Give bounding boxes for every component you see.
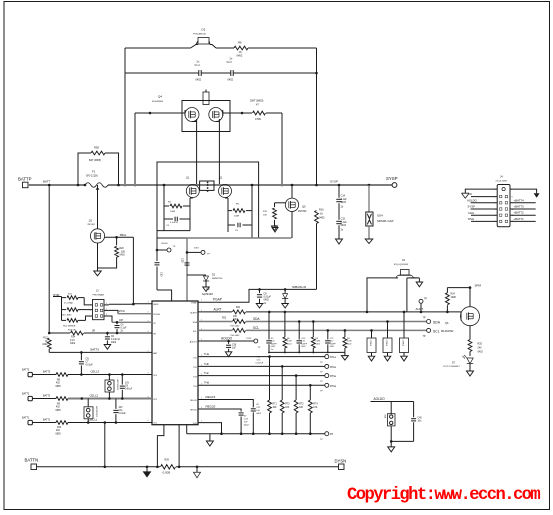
svg-text:PBAL: PBAL — [120, 233, 127, 237]
svg-text:RT4: RT4 — [313, 404, 318, 406]
svg-text:D1: D1 — [202, 28, 206, 32]
capacitor C11 cellC-D — [115, 399, 117, 409]
svg-text:RT1a: RT1a — [330, 356, 336, 359]
wire SDA row — [198, 321, 232, 323]
svg-text:SYSP: SYSP — [330, 179, 338, 183]
svg-text:SPM: SPM — [475, 283, 482, 287]
svg-text:SDA: SDA — [253, 317, 260, 321]
svg-text:REG25: REG25 — [206, 405, 216, 409]
svg-text:TP: TP — [423, 317, 426, 319]
wire J4 DSG — [471, 220, 497, 222]
svg-text:0.1uF 2n: 0.1uF 2n — [170, 222, 178, 224]
transistor Q6 — [469, 288, 471, 307]
wire J4 SYSP — [471, 208, 498, 210]
svg-text:SG4: SG4 — [377, 214, 383, 218]
transistor Q4 dual FET pack — [182, 101, 230, 132]
svg-text:SDA: SDA — [193, 321, 198, 324]
LED D7 — [467, 358, 473, 364]
svg-text:0805: 0805 — [56, 433, 62, 435]
svg-text:1: 1 — [90, 305, 91, 307]
svg-text:100R: 100R — [170, 211, 176, 213]
svg-text:CZRU5: CZRU5 — [369, 340, 371, 348]
transistor Q3 — [97, 185, 99, 229]
svg-text:1K: 1K — [320, 213, 323, 216]
svg-text:CELL3: CELL3 — [91, 370, 100, 374]
wire top bridge line2 with C1 C2 — [125, 72, 199, 74]
svg-text:0402: 0402 — [341, 224, 347, 227]
wire vertical right bridge riser x=316.5 — [316, 48, 318, 185]
svg-text:100R: 100R — [234, 216, 240, 218]
svg-text:F1: F1 — [92, 170, 96, 174]
svg-text:JC LEAD: JC LEAD — [64, 301, 73, 304]
wire CELL3 row — [32, 374, 56, 376]
svg-text:TP: TP — [423, 336, 426, 338]
svg-text:BATTP: BATTP — [18, 177, 32, 182]
resistor R6 — [234, 46, 248, 50]
svg-text:SCL: SCL — [253, 326, 259, 330]
svg-text:CP: CP — [119, 318, 123, 322]
svg-text:C2 2: C2 2 — [227, 61, 233, 64]
svg-text:1uF: 1uF — [232, 347, 237, 349]
gate network Q2 — [227, 198, 229, 232]
connector J4 — [497, 185, 510, 227]
svg-text:ZVC: ZVC — [119, 309, 126, 313]
svg-text:0.01uF: 0.01uF — [119, 413, 127, 415]
svg-text:R16: R16 — [319, 209, 324, 212]
wire J4 right gnd — [510, 189, 537, 193]
svg-text:0R: 0R — [92, 330, 95, 333]
svg-text:0402: 0402 — [42, 344, 48, 346]
resistor R16 — [315, 184, 318, 187]
svg-text:CN: CN — [86, 358, 90, 360]
svg-text:0402: 0402 — [319, 217, 325, 220]
zener pack D6 — [84, 407, 93, 419]
svg-text:bq29330: bq29330 — [202, 292, 213, 296]
svg-text:BATT1: BATT1 — [43, 419, 51, 422]
terminal DYSN — [339, 464, 345, 470]
wire IC bottom pins — [157, 425, 164, 466]
svg-text:SDA: SDA — [433, 320, 441, 324]
svg-text:MMSZ5V6: MMSZ5V6 — [212, 278, 223, 280]
svg-text:+BATT3: +BATT3 — [514, 205, 525, 209]
svg-text:100K: 100K — [451, 296, 457, 299]
svg-text:0.01uF: 0.01uF — [86, 364, 94, 366]
wire AOLDO row — [198, 340, 254, 342]
zener box DZ2 — [387, 322, 389, 339]
svg-text:SYSP: SYSP — [468, 205, 476, 209]
svg-text:SH3R: SH3R — [53, 294, 60, 297]
terminal BATT1 — [28, 420, 32, 424]
wire VSS rail — [187, 433, 325, 435]
svg-text:REG15: REG15 — [206, 395, 216, 399]
svg-text:RT3: RT3 — [299, 404, 304, 406]
wire PACK- drop x=187 — [186, 238, 188, 301]
wire J3 pin1 to PACK — [109, 303, 133, 305]
wire top bridge line1 — [125, 47, 191, 49]
svg-text:ALRT: ALRT — [214, 307, 222, 311]
svg-text:0402: 0402 — [196, 79, 202, 82]
wire J4 BATT1 — [510, 220, 536, 222]
resistor R25 240 — [469, 326, 471, 340]
svg-text:100PF: 100PF — [330, 343, 337, 345]
svg-text:RT1: RT1 — [273, 404, 278, 406]
svg-text:REG25: REG25 — [190, 410, 197, 412]
svg-text:AOLDO: AOLDO — [374, 397, 386, 401]
svg-text:RT2: RT2 — [285, 404, 290, 406]
svg-text:CHG: CHG — [468, 211, 474, 215]
svg-text:+BATT1: +BATT1 — [514, 217, 525, 221]
svg-text:0.047uF: 0.047uF — [256, 362, 264, 364]
svg-text:1K: 1K — [45, 341, 48, 343]
svg-text:BAT (0805): BAT (0805) — [89, 159, 101, 162]
terminal BATTP — [23, 182, 29, 188]
resistor R38 bypass loop — [78, 153, 91, 185]
svg-text:2n: 2n — [271, 349, 273, 351]
wire CELL1 to BATTN — [104, 423, 106, 467]
capacitor C25 — [413, 402, 415, 418]
svg-text:ALRT: ALRT — [416, 307, 424, 311]
inner pin box — [200, 181, 214, 190]
wire PBAL — [105, 236, 134, 238]
svg-text:1K: 1K — [239, 50, 242, 54]
svg-text:CELL2: CELL2 — [90, 394, 99, 398]
svg-text:+BATT2: +BATT2 — [514, 211, 525, 215]
op-amp U2 bq29330 IC body — [152, 301, 198, 425]
capacitor C26 — [298, 322, 300, 340]
svg-text:0402: 0402 — [70, 343, 76, 345]
wire CELL2 row — [32, 398, 56, 400]
svg-text:10K: 10K — [263, 215, 267, 217]
svg-text:0402: 0402 — [237, 53, 243, 57]
svg-text:240: 240 — [478, 347, 483, 350]
svg-text:PGAP: PGAP — [191, 302, 197, 305]
FET Q4a — [185, 108, 199, 122]
svg-text:R22: R22 — [222, 317, 227, 319]
gate network Q1 — [163, 185, 165, 231]
svg-text:AOLDO: AOLDO — [221, 336, 233, 340]
wire SCL row — [198, 329, 232, 331]
svg-text:0805: 0805 — [56, 410, 62, 412]
capacitor C28 — [227, 340, 230, 343]
capacitor C23 — [239, 412, 244, 414]
svg-text:2.0M: 2.0M — [347, 341, 352, 343]
wire J3 pin2 to ZVCHG — [109, 310, 118, 313]
wire VSS pin row — [198, 423, 222, 434]
resistor RT3 — [294, 400, 298, 413]
svg-text:2.2n: 2.2n — [301, 341, 305, 343]
svg-text:Y50 0402: Y50 0402 — [230, 326, 240, 328]
svg-text:R21: R21 — [236, 307, 241, 309]
FET Q2 — [219, 185, 232, 198]
svg-text:TP: TP — [424, 298, 427, 300]
wire BATT5 row — [49, 351, 152, 353]
svg-text:0.10: 0.10 — [70, 340, 75, 342]
svg-text:1uF: 1uF — [256, 410, 260, 412]
zener D2 near U2 — [187, 274, 206, 276]
wire REG15 row — [198, 400, 253, 408]
wire BATTN bus — [37, 466, 161, 468]
svg-text:10K: 10K — [313, 407, 318, 409]
svg-text:0.1uF: 0.1uF — [121, 328, 127, 330]
wire ZVC row — [118, 313, 152, 315]
wire box bottom — [391, 440, 413, 442]
svg-text:C29: C29 — [181, 258, 184, 263]
svg-text:CELL1: CELL1 — [89, 418, 98, 422]
svg-text:0402: 0402 — [244, 424, 250, 426]
zener pack D5 — [105, 380, 114, 392]
capacitor C7 cellA-B — [80, 352, 82, 360]
wire riser x=135 to Q4 — [134, 113, 136, 185]
test point AOLDO — [254, 339, 258, 343]
svg-text:DSG: DSG — [194, 247, 199, 249]
svg-text:REG15: REG15 — [190, 400, 197, 402]
chassis arrow — [196, 466, 199, 469]
wire CELL1 row — [32, 422, 56, 424]
thermistor box RT5 — [390, 402, 392, 414]
svg-text:RT: RT — [330, 433, 334, 436]
wire J4 CHG — [471, 214, 497, 216]
terminal BATTN — [31, 464, 37, 470]
resistor R11 row1 — [62, 297, 67, 299]
capacitor C22 — [251, 408, 256, 410]
resistor R28 — [344, 330, 346, 337]
svg-text:SFJ-1215U: SFJ-1215U — [86, 175, 98, 178]
svg-text:AZ23C6V2: AZ23C6V2 — [95, 406, 98, 417]
svg-text:0402: 0402 — [341, 201, 347, 204]
svg-text:4: 4 — [106, 303, 107, 305]
capacitor C4 on CP — [116, 321, 119, 324]
wire TS4 row — [198, 384, 325, 386]
wire PBAL riser to PACK pin — [133, 237, 152, 303]
svg-text:4: 4 — [148, 420, 149, 422]
wire J4 IN — [471, 196, 497, 198]
svg-text:10V: 10V — [119, 407, 124, 409]
capacitor C27 — [327, 330, 329, 339]
wire J4 BATT3 — [510, 208, 536, 210]
svg-text:BATT3: BATT3 — [43, 371, 51, 374]
node SPM — [447, 287, 470, 289]
resistor RT1 — [268, 400, 272, 413]
svg-text:CHGG: CHGG — [161, 243, 168, 245]
svg-text:6: 6 — [106, 314, 107, 316]
svg-text:C28: C28 — [232, 344, 237, 346]
svg-text:5: 5 — [106, 309, 107, 311]
svg-text:SMBJ20A-30: SMBJ20A-30 — [292, 286, 307, 289]
svg-text:THb: THb — [204, 362, 209, 366]
wire Q4 gate drops — [196, 119, 198, 184]
ground AOLDO2 — [390, 441, 392, 447]
svg-text:PROGRAM: PROGRAM — [93, 293, 104, 296]
svg-text:PACK: PACK — [153, 303, 159, 306]
capacitor C8 — [258, 288, 261, 291]
svg-text:RT2a: RT2a — [330, 366, 336, 369]
svg-text:THc: THc — [204, 371, 209, 375]
svg-text:THd: THd — [204, 381, 209, 385]
svg-text:SD LEAD: SD LEAD — [62, 313, 72, 316]
svg-text:BATT: BATT — [43, 180, 51, 184]
svg-text:0.01uF: 0.01uF — [125, 388, 133, 390]
ground arrow mid — [274, 225, 276, 228]
svg-text:BATT1: BATT1 — [22, 417, 30, 420]
wire TS3 row — [198, 375, 325, 377]
svg-text:R10: R10 — [57, 427, 62, 429]
resistor RT4 — [308, 400, 312, 413]
resistor R_DMT — [242, 112, 252, 114]
svg-text:C40: C40 — [418, 417, 423, 419]
svg-text:2.0M: 2.0M — [287, 341, 292, 343]
svg-text:R17: R17 — [43, 338, 48, 340]
svg-text:EVQ-Q2K03W: EVQ-Q2K03W — [394, 264, 409, 266]
svg-text:0.1uF 2n: 0.1uF 2n — [111, 339, 121, 341]
capacitor C24 — [268, 312, 270, 340]
test point TS4 — [325, 383, 329, 387]
svg-text:1uF: 1uF — [244, 421, 248, 423]
svg-text:SD2 SENSE: SD2 SENSE — [63, 326, 76, 328]
capacitor C29 on PACK- drop — [185, 262, 190, 264]
wire Q4 row — [150, 112, 185, 114]
svg-text:BATT2: BATT2 — [22, 393, 30, 396]
wire J4 BATT2 — [510, 214, 536, 216]
wire TS2 row — [198, 365, 325, 367]
terminal BATT2 — [28, 396, 32, 400]
svg-text:RT4a: RT4a — [330, 385, 336, 388]
node SH3R cluster — [53, 296, 62, 298]
svg-text:DYSN: DYSN — [335, 458, 347, 463]
test point TS1 — [325, 355, 329, 359]
node SYSP terminal — [392, 183, 397, 188]
svg-text:C30: C30 — [160, 272, 163, 277]
capacitor C6 on SR — [106, 332, 109, 335]
wire TS1 row — [198, 356, 325, 358]
svg-text:PVN-4R4545: PVN-4R4545 — [193, 34, 207, 36]
svg-text:0402: 0402 — [228, 79, 234, 82]
svg-text:10K: 10K — [285, 407, 290, 409]
svg-text:Q5: Q5 — [302, 205, 306, 209]
zener box DZ3 — [403, 312, 405, 338]
svg-text:RT3a: RT3a — [330, 375, 336, 378]
transistor Q5 — [285, 198, 298, 211]
svg-text:R14: R14 — [71, 337, 76, 339]
ground for S2 — [418, 278, 420, 282]
svg-text:0402: 0402 — [256, 413, 262, 415]
svg-text:AOLDO: AOLDO — [190, 341, 197, 344]
ground BATTN — [146, 466, 149, 469]
wire J4 BATT4 — [510, 202, 536, 204]
svg-text:R20: R20 — [120, 248, 125, 250]
svg-text:FDS4935A: FDS4935A — [152, 100, 163, 103]
capacitor C9 cellB-C — [121, 375, 123, 385]
svg-text:U2: U2 — [206, 287, 210, 291]
test point SDA — [427, 320, 431, 324]
resistor R13 row3 — [62, 319, 67, 321]
ground VSS — [209, 434, 211, 441]
svg-text:ALERT: ALERT — [190, 311, 197, 314]
capacitor C2 — [230, 70, 232, 76]
svg-text:0402: 0402 — [478, 351, 484, 354]
test point TS2 — [325, 364, 329, 368]
svg-text:THa: THa — [204, 352, 209, 356]
resistor R17 on BATT5 drop — [48, 185, 50, 333]
svg-text:VSS: VSS — [193, 423, 198, 425]
wire CP row — [109, 316, 112, 322]
switch S2 — [367, 278, 392, 312]
svg-text:BATT3: BATT3 — [22, 369, 30, 372]
svg-text:SPARK GAP: SPARK GAP — [377, 219, 394, 223]
capacitor C14 C15 chain — [338, 184, 341, 187]
connector J3 program — [93, 300, 105, 320]
svg-text:2N7002: 2N7002 — [298, 210, 307, 213]
svg-text:PGAP: PGAP — [213, 298, 222, 302]
wire REG25 row — [198, 409, 241, 412]
svg-text:3: 3 — [90, 316, 91, 318]
wire thermistor drops — [269, 357, 271, 400]
spark gap SG4 — [368, 184, 371, 187]
resistor R20 — [116, 237, 118, 245]
svg-text:AOLDO: AOLDO — [467, 198, 478, 202]
svg-text:12V: 12V — [125, 382, 130, 384]
svg-text:10K: 10K — [299, 407, 304, 409]
wire PGAP route — [198, 289, 317, 302]
svg-text:BATTN: BATTN — [25, 458, 39, 463]
test point ALRT — [420, 303, 422, 312]
svg-text:10K: 10K — [273, 407, 278, 409]
svg-text:0402: 0402 — [111, 342, 117, 344]
capacitor C1 — [198, 70, 200, 76]
svg-text:R38: R38 — [94, 146, 99, 150]
svg-text:R25: R25 — [478, 343, 483, 346]
zener D4 SMBJ — [284, 288, 287, 291]
svg-text:DSG: DSG — [468, 217, 474, 221]
svg-text:2N7002: 2N7002 — [87, 224, 95, 226]
zener box DZ1 — [371, 330, 373, 338]
svg-text:LTST-C190KRKT: LTST-C190KRKT — [443, 366, 461, 368]
wire DMT drop to bus — [281, 113, 283, 185]
svg-text:ZVCHG: ZVCHG — [153, 314, 160, 316]
svg-text:22-05-7068: 22-05-7068 — [496, 181, 508, 183]
svg-text:C1 2: C1 2 — [195, 64, 201, 67]
resistor R12 row2 — [62, 309, 67, 311]
resistor R24 100K — [446, 305, 448, 312]
svg-text:R6: R6 — [238, 41, 242, 45]
wire SR row — [49, 332, 70, 334]
test point DSGG — [186, 251, 189, 254]
svg-text:0.5W: 0.5W — [255, 118, 261, 121]
svg-text:SYSP: SYSP — [386, 176, 398, 181]
FET Q1 — [186, 185, 199, 198]
svg-text:R29: R29 — [165, 459, 170, 462]
test point TS3 — [325, 374, 329, 378]
svg-text:CZRU5: CZRU5 — [385, 340, 387, 348]
svg-text:0402: 0402 — [120, 255, 126, 257]
resistor RT2 — [280, 400, 284, 413]
FET Q4b — [209, 108, 223, 122]
transistor block Q1 Q2 — [157, 162, 259, 238]
svg-text:100PF: 100PF — [301, 343, 308, 345]
test point VSS — [325, 432, 329, 436]
svg-text:100PF: 100PF — [271, 343, 278, 345]
resistor R27 — [312, 322, 314, 338]
svg-text:CZRU5: CZRU5 — [402, 340, 404, 348]
test point CHGG — [156, 249, 159, 252]
wire ALRT row — [198, 311, 232, 313]
svg-text:DMT (0805): DMT (0805) — [250, 100, 263, 103]
svg-text:10K: 10K — [121, 251, 126, 253]
fuse F1 — [85, 183, 108, 188]
wire PACK- rail y=238 — [187, 237, 291, 239]
resistor R26 — [284, 312, 286, 337]
svg-text:BATT2: BATT2 — [43, 395, 51, 398]
diode D1 — [191, 45, 199, 49]
